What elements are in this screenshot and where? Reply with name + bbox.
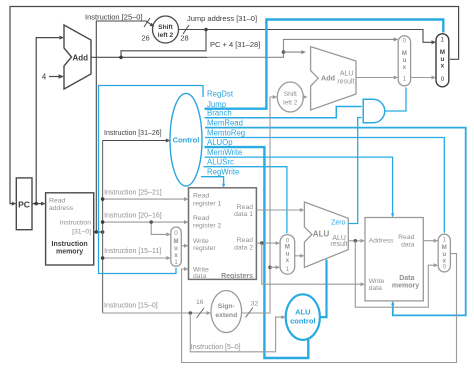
- svg-text:data: data: [369, 285, 382, 292]
- wire: PC feedback from jump mux output around top-left into PC: [10, 7, 459, 204]
- svg-text:result: result: [337, 79, 354, 86]
- svg-text:Read: Read: [49, 198, 65, 205]
- svg-text:memory: memory: [392, 283, 419, 290]
- slash 26 bits: [144, 18, 150, 27]
- shift left 2 (jump): [153, 16, 179, 43]
- svg-text:ALU: ALU: [295, 308, 310, 317]
- mux MemtoReg: [438, 234, 450, 272]
- registers block: [189, 188, 257, 280]
- svg-text:ALUSrc: ALUSrc: [207, 158, 234, 167]
- wire: jump address bus to jump mux: [179, 30, 435, 43]
- svg-text:Instruction [25–21]: Instruction [25–21]: [104, 189, 162, 196]
- wire: MemtoReg control signal to mux select: [205, 138, 444, 233]
- wire: MemRead control signal to data memory bottom: [205, 128, 466, 316]
- wire: PC up to Add: [36, 38, 62, 204]
- slash 16 bits: [197, 308, 205, 318]
- svg-text:register 2: register 2: [193, 223, 222, 230]
- svg-text:RegDst: RegDst: [207, 89, 234, 98]
- control unit ellipse: [170, 93, 202, 186]
- wire: sign extend to ALUSrc mux input 1: [270, 266, 279, 268]
- svg-text:left 2: left 2: [283, 100, 298, 107]
- svg-text:Sign-: Sign-: [218, 303, 235, 310]
- adder Add ALU result (branch target): [311, 47, 356, 110]
- wire: read data 2 to ALUSrc mux input 0: [256, 242, 278, 244]
- svg-text:RegWrite: RegWrite: [207, 168, 239, 177]
- svg-text:Jump address [31–0]: Jump address [31–0]: [187, 14, 257, 23]
- wire: ALUSrc mux output to ALU input 2: [295, 255, 303, 257]
- wire: ALUOp control signal to ALU control (thick): [205, 147, 309, 358]
- wire: Zero to AND gate: [348, 118, 361, 224]
- wire: ALU control to ALU operation input (thick): [320, 260, 327, 318]
- svg-text:PC: PC: [18, 200, 30, 210]
- svg-text:register: register: [193, 245, 216, 252]
- wire: instruction [20-16] to read register 2: [103, 221, 187, 223]
- wire: ALU result to data memory address: [348, 240, 363, 242]
- svg-text:ALU: ALU: [340, 71, 354, 78]
- svg-text:Address: Address: [369, 238, 395, 245]
- wire: RegDst mux output to write register: [181, 245, 187, 247]
- svg-text:M: M: [442, 245, 447, 251]
- svg-text:Write: Write: [193, 238, 209, 245]
- wire: branch adder output to branch mux input 1: [356, 77, 397, 79]
- wire: MemWrite control signal to data memory top: [205, 157, 393, 216]
- svg-text:u: u: [174, 246, 178, 252]
- svg-text:Read: Read: [237, 237, 253, 244]
- wire: PC+4 [31-28] tap to jump address: [121, 30, 206, 58]
- wire: AND gate output to branch mux select: [385, 88, 406, 112]
- svg-text:Shift: Shift: [284, 91, 297, 98]
- svg-text:M: M: [402, 51, 407, 57]
- wire: instruction [15-11] to RegDst mux input 1: [103, 257, 170, 259]
- svg-text:Instruction [15–11]: Instruction [15–11]: [104, 248, 161, 255]
- svg-text:Instruction [31–26]: Instruction [31–26]: [104, 130, 162, 137]
- junction dot PC+4 split: [282, 50, 286, 54]
- wire: instruction output to vertical bus: [94, 231, 103, 233]
- svg-text:Instruction: Instruction: [60, 220, 92, 227]
- svg-text:Add: Add: [321, 73, 335, 82]
- svg-text:ALUOp: ALUOp: [207, 138, 233, 147]
- svg-text:address: address: [49, 205, 74, 212]
- wire: shift left 2 output to branch adder: [303, 96, 306, 98]
- svg-text:Read: Read: [398, 234, 414, 241]
- svg-text:Read: Read: [193, 193, 209, 200]
- wire: PC+4 from Add to branch adder and mux: [91, 56, 207, 58]
- wire: sign extend output riser to shift left 2 and ALUSrc mux: [242, 97, 276, 313]
- svg-text:Instruction [15–0]: Instruction [15–0]: [104, 302, 158, 309]
- svg-text:Jump: Jump: [207, 100, 227, 109]
- mux jump: [436, 34, 449, 87]
- sign extend unit: [211, 291, 242, 333]
- svg-text:MemWrite: MemWrite: [207, 148, 242, 157]
- svg-text:28: 28: [180, 34, 188, 43]
- svg-text:PC + 4 [31–28]: PC + 4 [31–28]: [210, 40, 260, 49]
- junction dot instruction [15-0]: [189, 311, 193, 315]
- junction dot on PC+4 wire: [119, 56, 123, 60]
- adder Add (PC+4): [64, 25, 91, 89]
- junction dot on jump address wire: [204, 28, 208, 32]
- slash 28 bits: [183, 25, 189, 34]
- svg-text:Read: Read: [193, 215, 209, 222]
- svg-text:result: result: [330, 241, 347, 248]
- wire: RegDst control signal: [99, 86, 204, 274]
- wire: ALU result branch to MemtoReg mux input 0: [355, 241, 436, 307]
- svg-text:Shift: Shift: [158, 24, 173, 31]
- wire: read data 2 branch to data memory write data: [262, 243, 364, 284]
- wire: instruction [31-26] into Control: [103, 140, 169, 142]
- svg-text:Zero: Zero: [331, 220, 346, 227]
- svg-text:extend: extend: [215, 312, 237, 319]
- svg-text:Branch: Branch: [207, 109, 232, 118]
- junction dot sign extend riser: [268, 266, 272, 270]
- svg-text:26: 26: [141, 34, 149, 43]
- svg-text:x: x: [441, 62, 445, 69]
- svg-text:data 1: data 1: [234, 211, 253, 218]
- mux ALUSrc: [280, 235, 295, 275]
- instruction memory: [46, 193, 94, 265]
- svg-text:control: control: [290, 317, 315, 326]
- junction dot PC output: [34, 202, 38, 206]
- wire: instruction [5-0] to ALU control: [190, 313, 284, 352]
- svg-text:left 2: left 2: [158, 32, 174, 39]
- svg-text:16: 16: [196, 299, 204, 306]
- wire: instruction [20-16] branch to RegDst mux input 0: [151, 222, 169, 234]
- shift left 2 (branch): [277, 82, 303, 112]
- svg-text:Add: Add: [73, 53, 89, 62]
- wire: RegWrite control signal into Registers: [201, 177, 224, 187]
- slash 32 bits: [246, 308, 254, 318]
- wire: read data to MemtoReg mux input 1: [423, 240, 436, 242]
- svg-text:Read: Read: [237, 204, 253, 211]
- svg-text:data 2: data 2: [234, 244, 253, 251]
- svg-text:u: u: [442, 252, 446, 258]
- AND gate branch: [363, 99, 385, 123]
- svg-text:M: M: [285, 244, 290, 250]
- svg-text:u: u: [286, 251, 290, 257]
- wire: instruction [25-0] riser to shift left 2: [96, 21, 153, 232]
- wire: read data 1 to ALU input 1: [256, 209, 302, 211]
- wire: instruction vertical bus: [102, 141, 104, 314]
- svg-text:M: M: [174, 239, 179, 245]
- svg-text:Control: Control: [173, 136, 200, 145]
- svg-text:data: data: [401, 241, 414, 248]
- svg-text:Instruction [25–0]: Instruction [25–0]: [85, 13, 143, 22]
- svg-text:MemtoReg: MemtoReg: [207, 129, 245, 138]
- svg-text:MemRead: MemRead: [207, 119, 243, 128]
- svg-text:ALU: ALU: [313, 230, 330, 239]
- svg-text:memory: memory: [56, 249, 83, 256]
- svg-text:Instruction [5–0]: Instruction [5–0]: [191, 344, 241, 351]
- svg-text:Instruction [20–16]: Instruction [20–16]: [104, 212, 162, 219]
- svg-text:Registers: Registers: [221, 273, 253, 280]
- wire: instruction [15-0] to sign extend: [103, 312, 210, 314]
- ALU control unit: [286, 294, 320, 340]
- mux RegDst (write register select): [171, 227, 182, 266]
- wire: Jump control signal (thick): [205, 20, 444, 109]
- wire: MemtoReg mux output wrap-around to registers write data: [182, 254, 457, 363]
- PC register: [16, 178, 32, 230]
- svg-text:Instruction: Instruction: [52, 241, 88, 248]
- svg-text:4: 4: [42, 73, 47, 82]
- svg-text:u: u: [403, 58, 407, 64]
- wire: instruction [25-21] to read register 1: [103, 198, 187, 200]
- svg-text:Data: Data: [399, 275, 414, 282]
- mux branch (PCSrc): [398, 36, 410, 86]
- wire: PC+4 into branch Add top input: [284, 51, 305, 53]
- ALU main: [304, 202, 348, 267]
- svg-text:register 1: register 1: [193, 201, 222, 208]
- svg-text:data: data: [193, 273, 206, 280]
- wire: ALUSrc control signal to mux select: [204, 167, 287, 234]
- wire: branch mux output to jump mux input 0: [411, 77, 435, 79]
- svg-text:32: 32: [251, 301, 259, 308]
- data memory: [365, 218, 423, 301]
- svg-text:[31–0]: [31–0]: [72, 229, 91, 236]
- wire: Branch control signal to AND gate: [205, 107, 362, 118]
- wire: PC to instruction memory read address: [32, 203, 44, 205]
